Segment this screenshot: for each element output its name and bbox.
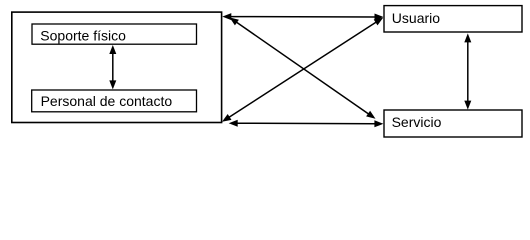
double arrow V2: Usuario to Servicio [464,33,471,109]
box Personal de contacto [32,90,197,112]
double arrow V1: Soporte fisico to Personal de contacto [109,45,116,89]
box Soporte fisico [32,24,197,44]
svg-text:Usuario: Usuario [392,10,440,26]
outer system rectangle [12,12,222,122]
svg-text:Soporte físico: Soporte físico [40,28,126,44]
double arrow H2: outer rect to Servicio [229,120,384,128]
svg-text:Servicio: Servicio [392,114,442,130]
box Servicio [384,110,522,137]
box Usuario [384,6,522,32]
double arrow D1: outer rect bottom corner to Usuario [222,18,383,122]
double arrow H1: outer rect to Usuario [222,13,383,20]
svg-text:Personal de contacto: Personal de contacto [41,93,173,109]
double arrow D2: outer rect top corner to Servicio [230,17,376,118]
